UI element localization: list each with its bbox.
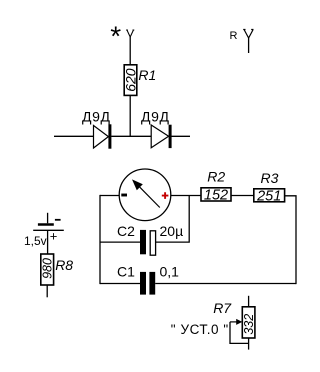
battery GB1 xyxy=(33,220,64,231)
wire C2 right xyxy=(156,196,189,243)
svg-text:1,5v: 1,5v xyxy=(24,234,47,248)
svg-text:Д9Д: Д9Д xyxy=(141,109,170,125)
svg-text:R1: R1 xyxy=(138,67,156,83)
wire R8 bottom xyxy=(46,285,48,297)
svg-text:C1: C1 xyxy=(117,264,135,280)
wire R2 to R3 xyxy=(231,195,254,197)
svg-text:Д9Д: Д9Д xyxy=(82,109,111,125)
svg-text:*: * xyxy=(110,21,121,52)
wire ANT2 stub xyxy=(248,38,250,53)
R7 wiper xyxy=(230,319,249,344)
wire ANT1 to R1 xyxy=(129,37,131,65)
svg-text:R3: R3 xyxy=(261,170,279,186)
svg-text:620: 620 xyxy=(122,68,138,92)
resistor R1 xyxy=(122,65,138,96)
meter plus terminal xyxy=(162,192,169,199)
wire diode row right end xyxy=(171,135,190,137)
svg-text:20µ: 20µ xyxy=(160,223,184,239)
wire C2 left xyxy=(100,241,140,243)
wire between diodes xyxy=(111,135,151,137)
wire left vertical xyxy=(99,195,101,284)
wire battery to R8 xyxy=(47,231,49,254)
svg-text:R2: R2 xyxy=(207,169,225,185)
wire battery top xyxy=(47,213,49,224)
svg-text:R8: R8 xyxy=(55,257,73,273)
wire R7 top xyxy=(248,296,250,307)
svg-text:980: 980 xyxy=(41,258,55,279)
antenna ANT1 xyxy=(126,30,134,37)
wire R7 bottom xyxy=(248,338,250,350)
resistor R2 xyxy=(201,188,231,204)
svg-text:0,1: 0,1 xyxy=(160,263,180,279)
resistor R3 xyxy=(254,189,285,205)
wire C1 right xyxy=(155,283,296,285)
wire R1 to diode junction xyxy=(129,95,131,136)
svg-text:R: R xyxy=(230,30,238,42)
svg-text:R7: R7 xyxy=(213,300,232,316)
capacitor C2 xyxy=(140,230,156,255)
diode VD1 xyxy=(94,124,112,148)
meter PA1 xyxy=(119,169,171,221)
svg-text:332: 332 xyxy=(242,314,256,335)
svg-text:251: 251 xyxy=(256,189,281,205)
antenna ANT2 xyxy=(243,30,253,39)
svg-text:152: 152 xyxy=(204,188,228,204)
diode VD2 xyxy=(151,125,171,148)
svg-text:C2: C2 xyxy=(117,223,135,239)
wire R3 to right vertical xyxy=(285,196,296,284)
wire meter left xyxy=(100,195,119,197)
resistor R7 potentiometer xyxy=(242,307,256,338)
svg-text:+: + xyxy=(50,229,58,244)
wire diode row left end xyxy=(54,135,94,137)
capacitor C1 xyxy=(140,272,155,295)
svg-text:" УСТ.0 ": " УСТ.0 " xyxy=(171,322,229,337)
resistor R8 xyxy=(41,254,55,285)
wire C1 left xyxy=(100,283,140,285)
wire meter right xyxy=(171,195,201,197)
